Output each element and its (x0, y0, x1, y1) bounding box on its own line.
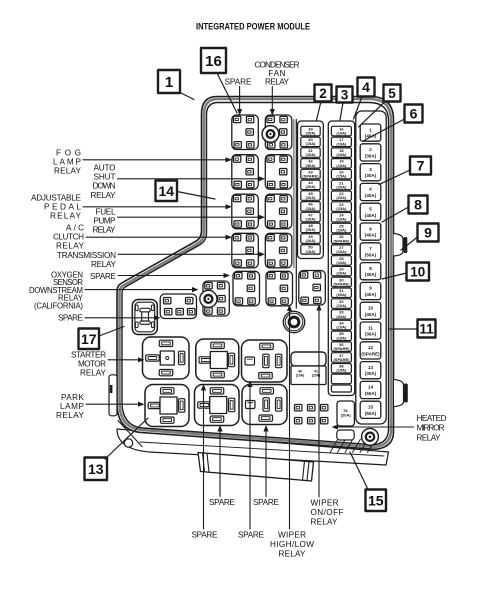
leader 1 (180, 93, 194, 100)
svg-text:15: 15 (368, 492, 384, 508)
empty mini fuse slot (331, 374, 351, 384)
mini fuse 24 (10A) (331, 213, 351, 223)
internal wall line (295, 120, 297, 309)
svg-text:(20A): (20A) (336, 314, 347, 319)
svg-text:CLUTCH: CLUTCH (53, 233, 84, 242)
svg-text:(20A): (20A) (336, 271, 347, 276)
svg-text:(40A): (40A) (365, 213, 377, 218)
svg-text:(10A): (10A) (336, 335, 347, 340)
mini fuse 31 (20A) (331, 288, 351, 298)
svg-text:(10A): (10A) (336, 141, 347, 146)
relay position B1 condenser fan (265, 115, 292, 150)
arrow transmission (118, 253, 259, 255)
mini fuse 42 (30A) (301, 159, 320, 169)
svg-text:RELAY: RELAY (54, 167, 82, 176)
svg-text:(30A): (30A) (305, 163, 316, 168)
maxi fuse 6 (40A) (360, 223, 381, 240)
leader 6 (364, 119, 405, 141)
relay position A1 (SPARE) (232, 115, 258, 150)
svg-text:TRANSMISSION: TRANSMISSION (57, 251, 116, 260)
leader 4 (354, 97, 363, 120)
svg-text:(SPARE): (SPARE) (333, 357, 350, 362)
corner crease mark (118, 421, 142, 447)
svg-text:(20A): (20A) (305, 227, 316, 232)
mini fuse 26 (SPARE) (331, 234, 351, 244)
svg-text:15: 15 (368, 405, 374, 410)
mini fuse 37 (SPARE) (331, 353, 351, 363)
maxi fuse 3 (30A) (360, 164, 381, 181)
mini fuse 39 (25A) (301, 126, 320, 136)
svg-text:(10A): (10A) (336, 131, 347, 136)
svg-text:(10A): (10A) (336, 260, 347, 265)
svg-text:(15A): (15A) (305, 249, 316, 254)
callout 16 (201, 48, 226, 73)
right side tab 1 (394, 234, 404, 257)
svg-text:12: 12 (368, 345, 374, 350)
mini fuse 33 (20A) (331, 310, 351, 320)
svg-text:WIPER: WIPER (311, 499, 339, 508)
svg-text:14: 14 (158, 183, 174, 199)
leader 13 (105, 418, 148, 459)
callout 6 (405, 105, 423, 123)
svg-text:(40A): (40A) (365, 193, 377, 198)
maxi fuse 10 (40A) (360, 302, 381, 319)
maxi fuse 8 (30A) (360, 263, 381, 280)
svg-text:(15A): (15A) (336, 368, 347, 373)
maxi fuse 11 (30A) (360, 322, 381, 339)
svg-text:(50A): (50A) (365, 411, 377, 416)
arrow a/c clutch (86, 236, 226, 238)
svg-text:16: 16 (205, 53, 222, 70)
svg-text:STARTER: STARTER (71, 351, 106, 360)
callout 11 (418, 320, 436, 338)
svg-text:SPARE: SPARE (225, 77, 253, 86)
leader 14 (177, 192, 215, 200)
maxi fuse 12 (SPARE) (360, 342, 381, 359)
cartridge fuse block top (291, 352, 326, 366)
svg-text:3: 3 (341, 87, 349, 102)
mini fuse 30 (SPARE) (331, 277, 351, 287)
svg-text:13: 13 (368, 365, 374, 370)
svg-text:(20A): (20A) (305, 238, 316, 243)
maxi fuse 5 (40A) (360, 203, 381, 220)
relay B5 wiper high/low (266, 271, 293, 306)
flat spare relay footprint (160, 294, 196, 319)
big relay R1C2 (196, 339, 239, 381)
maxi fuse 13 (30A) (360, 362, 381, 379)
mini fuse 16 (10A) (331, 126, 351, 136)
svg-text:HEATED: HEATED (417, 414, 447, 423)
svg-text:RELAY: RELAY (417, 433, 442, 442)
mini fuse 41 (15A) (301, 148, 320, 158)
leader 11 (390, 328, 418, 330)
mini fuse 40 (15A) (301, 137, 320, 147)
svg-text:(25A): (25A) (305, 131, 316, 136)
svg-text:(30A): (30A) (365, 371, 377, 376)
svg-text:(15A): (15A) (336, 174, 347, 179)
svg-text:RELAY: RELAY (93, 226, 117, 235)
svg-text:4: 4 (362, 79, 370, 95)
maxi fuse 2 (30A) (360, 144, 381, 161)
svg-text:(20A): (20A) (305, 184, 316, 189)
mini fuse 32 (10A) (331, 299, 351, 309)
svg-text:(30A): (30A) (365, 332, 377, 337)
arrow spare upper (118, 275, 224, 277)
maxi fuse 9 (40A) (360, 282, 381, 299)
arrow fuel pump (118, 216, 259, 218)
leader wiper high/low (289, 311, 291, 530)
svg-text:MIRROR: MIRROR (417, 424, 445, 433)
mini fuse 17 (10A) (331, 137, 351, 147)
svg-text:SPARE: SPARE (209, 498, 236, 507)
svg-text:17: 17 (81, 331, 97, 347)
mini fuse 23 (15A) (331, 202, 351, 212)
right side tab 2 (394, 380, 404, 407)
maxi fuse 1 (40A) (360, 124, 381, 141)
mini fuse 46 (15A) (301, 202, 320, 212)
svg-text:(10A): (10A) (336, 228, 347, 233)
big relay R2C2 (195, 385, 240, 426)
mini fuse 20 (15A) (331, 169, 351, 179)
relay A2 fog lamp (232, 155, 258, 190)
svg-text:RELAY: RELAY (265, 77, 290, 86)
condenser fan relay circle (262, 126, 279, 143)
svg-text:13: 13 (88, 461, 104, 477)
leader spare b1 (219, 431, 221, 497)
relay A3 adjustable pedal (232, 194, 258, 229)
fuse 51 (337, 401, 354, 426)
svg-text:(10A): (10A) (336, 325, 347, 330)
maxi fuse 14 (50A) (360, 381, 381, 398)
leader 3 (340, 103, 343, 121)
svg-text:(10A): (10A) (336, 152, 347, 157)
svg-text:(15A): (15A) (305, 152, 316, 157)
svg-text:LAMP: LAMP (60, 402, 85, 411)
leader 2 (317, 102, 322, 121)
mini fuse 18 (10A) (331, 148, 351, 158)
relay A5 spare (233, 271, 260, 306)
svg-text:14: 14 (368, 385, 374, 390)
svg-text:(40A): (40A) (365, 292, 377, 297)
maxi fuse 15 (50A) (360, 401, 381, 418)
mini fuse 47 (15A) (301, 212, 320, 222)
svg-text:9: 9 (424, 225, 432, 241)
svg-text:(15A): (15A) (305, 206, 316, 211)
svg-text:2: 2 (319, 86, 327, 101)
arrow adjustable pedal (83, 206, 226, 208)
heated mirror relay circle (362, 428, 379, 445)
svg-text:WIPER: WIPER (278, 531, 306, 540)
svg-text:(SPARE): (SPARE) (333, 346, 350, 351)
svg-text:(40A): (40A) (365, 233, 377, 238)
svg-text:(SPARE): (SPARE) (361, 351, 380, 356)
mini fuse 50 (15A) (301, 245, 320, 255)
callout 1 (158, 70, 180, 93)
big relay R1C3 (242, 340, 288, 382)
big relay R1C1 starter motor (143, 337, 190, 379)
spare diode connector (callout 17 area) (132, 300, 157, 335)
empty slot below fuse 51 (337, 430, 354, 440)
mini fuse 38 (15A) (331, 364, 351, 374)
svg-text:(20A): (20A) (305, 195, 316, 200)
arrow spare top (239, 87, 241, 110)
arrow fog lamp (83, 159, 226, 161)
callout 10 (407, 263, 430, 281)
svg-text:(40A): (40A) (365, 312, 377, 317)
callout 2 (315, 85, 332, 102)
leader 15 (350, 452, 368, 490)
big relay R2C3 (242, 385, 287, 425)
svg-text:(SPARE): (SPARE) (333, 238, 350, 243)
svg-text:(50A): (50A) (365, 391, 377, 396)
leader 7 (379, 170, 410, 185)
svg-text:(30A): (30A) (365, 173, 377, 178)
callout 14 (156, 181, 178, 202)
callout 5 (384, 85, 401, 102)
leader 16 (217, 73, 237, 113)
svg-text:8: 8 (414, 197, 422, 213)
leader 5 (359, 102, 386, 128)
arrow oxygen sensor (85, 289, 192, 291)
svg-text:6: 6 (410, 106, 418, 122)
svg-text:AUTO: AUTO (94, 164, 116, 173)
mini fuse 35 (10A) (331, 331, 351, 341)
mini fuse 28 (10A) (331, 256, 351, 266)
svg-text:RELAY: RELAY (56, 411, 85, 420)
svg-text:MOTOR: MOTOR (78, 360, 106, 369)
svg-text:11: 11 (368, 325, 373, 330)
bottom tab handle (198, 453, 314, 482)
mini fuse 48 (20A) (301, 223, 320, 233)
svg-text:(20A): (20A) (336, 292, 347, 297)
leader spare b2 (265, 431, 267, 497)
mini fuse 36 (SPARE) (331, 342, 351, 352)
svg-text:(10A): (10A) (336, 303, 347, 308)
svg-text:SPARE: SPARE (58, 314, 84, 323)
callout 3 (337, 87, 353, 103)
svg-text:(SPARE): (SPARE) (302, 174, 319, 179)
svg-text:FOG: FOG (56, 149, 81, 158)
callout 13 (85, 458, 108, 481)
bottom skirt (117, 429, 389, 465)
mini fuse 22 (20A) (331, 191, 351, 201)
svg-text:PUMP: PUMP (94, 217, 117, 226)
mini fuse 19 (10A) (331, 159, 351, 169)
svg-text:SHUT: SHUT (94, 173, 116, 182)
leader 10 (382, 273, 407, 279)
svg-text:FUEL: FUEL (96, 208, 116, 217)
svg-text:1: 1 (165, 74, 173, 91)
leader 8 (382, 207, 409, 222)
svg-text:ADJUSTABLE: ADJUSTABLE (31, 194, 82, 203)
maxi fuse 4 (40A) (360, 183, 381, 200)
svg-text:RELAY: RELAY (91, 191, 117, 200)
leader wiper on/off (318, 310, 320, 497)
leader 9 (401, 237, 418, 250)
svg-text:SPARE: SPARE (253, 498, 280, 507)
svg-text:RELAY: RELAY (50, 212, 82, 221)
svg-text:(15A): (15A) (305, 217, 316, 222)
module inner outline (122, 103, 389, 445)
mini fuse 29 (20A) (331, 266, 351, 276)
middle mini fuse column housing (328, 121, 354, 396)
mounting hole bottom-left (124, 439, 132, 447)
svg-text:RELAY: RELAY (279, 550, 307, 559)
leader spare b4 (249, 387, 251, 530)
callout 15 (366, 490, 387, 512)
left mini fuse column housing (298, 121, 324, 259)
svg-text:RELAY: RELAY (91, 260, 117, 269)
mini fuse 44 (20A) (301, 180, 320, 190)
callout 9 (418, 224, 439, 242)
svg-text:(20A): (20A) (341, 413, 352, 418)
svg-text:SPARE: SPARE (238, 531, 265, 540)
callout 4 (358, 78, 375, 97)
svg-text:RELAY: RELAY (311, 518, 339, 527)
svg-text:SPARE: SPARE (192, 531, 219, 540)
mini fuse 27 (10A) (331, 245, 351, 255)
svg-text:10: 10 (410, 264, 425, 279)
svg-text:(10A): (10A) (336, 163, 347, 168)
leader 17 (99, 327, 124, 337)
relay A4 a/c clutch (232, 233, 258, 267)
relay B3 fuel pump (265, 194, 292, 229)
svg-text:(15A): (15A) (336, 206, 347, 211)
relay B4 transmission (265, 233, 292, 267)
svg-text:HIGH/LOW: HIGH/LOW (270, 540, 314, 549)
leader spare b3 (203, 390, 205, 529)
svg-text:(30A): (30A) (365, 153, 377, 158)
big relay R2C1 park lamp (145, 385, 189, 427)
svg-text:(20A): (20A) (336, 184, 347, 189)
svg-text:7: 7 (417, 158, 425, 174)
svg-text:(10A): (10A) (336, 217, 347, 222)
arrow park lamp (86, 403, 138, 405)
mini fuse 34 (10A) (331, 320, 351, 330)
arrow condenser fan (271, 87, 273, 110)
arrow heated mirror (338, 426, 414, 428)
svg-text:SPARE: SPARE (90, 272, 117, 281)
svg-text:(10A): (10A) (296, 374, 304, 378)
svg-text:5: 5 (388, 86, 396, 101)
solenoid circle (283, 311, 304, 332)
svg-text:(15A): (15A) (305, 141, 316, 146)
module outline shading band (120, 99, 392, 447)
maxi fuse 7 (50A) (360, 243, 381, 260)
svg-text:RELAY: RELAY (56, 242, 85, 251)
arrow spare lower-left (85, 317, 154, 319)
mini fuse 25 (10A) (331, 223, 351, 233)
callout 7 (410, 157, 431, 175)
arrow auto shut down (118, 178, 259, 180)
svg-text:ON/OFF: ON/OFF (311, 508, 344, 517)
large fuse column housing (356, 111, 386, 424)
svg-text:LAMP: LAMP (53, 158, 82, 167)
svg-text:10: 10 (368, 306, 374, 311)
svg-text:(30A): (30A) (365, 272, 377, 277)
svg-text:(10A): (10A) (336, 249, 347, 254)
svg-text:(SPARE): (SPARE) (333, 281, 350, 286)
arrow starter motor (108, 359, 138, 361)
svg-text:PARK: PARK (61, 393, 85, 402)
svg-text:DOWN: DOWN (93, 182, 116, 191)
module outer outline (117, 97, 394, 450)
oxygen sensor downstream relay (circle relay) (203, 281, 229, 316)
svg-text:(CALIFORNIA): (CALIFORNIA) (34, 302, 83, 311)
svg-text:INTEGRATED POWER MODULE: INTEGRATED POWER MODULE (196, 22, 310, 33)
callout 17 (79, 329, 100, 350)
empty mini fuse slot (331, 385, 351, 392)
skirt hatch marks (330, 439, 338, 453)
cartridge fuse block bottom (291, 366, 326, 385)
wiper relay cluster (293, 403, 332, 433)
callout 8 (409, 196, 428, 214)
mini fuse 45 (20A) (301, 191, 320, 201)
svg-text:A/C: A/C (66, 224, 84, 233)
relay C5 wiper on/off (299, 271, 326, 306)
svg-text:(50A): (50A) (365, 252, 377, 257)
svg-text:11: 11 (419, 321, 434, 336)
mini fuse 49 (20A) (301, 234, 320, 244)
left side tab (109, 375, 117, 416)
svg-text:RELAY: RELAY (80, 369, 107, 378)
relay B2 auto shut down (265, 155, 292, 190)
mini fuse 43 (SPARE) (301, 169, 320, 179)
mini fuse 21 (20A) (331, 180, 351, 190)
svg-text:(20A): (20A) (336, 195, 347, 200)
